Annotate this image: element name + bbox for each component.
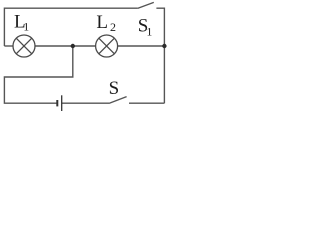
- node A junction dot: [71, 44, 75, 48]
- battery cell: short negative plate: [56, 100, 58, 106]
- node B junction dot: [162, 44, 166, 48]
- battery cell: long positive plate: [61, 95, 63, 111]
- lamp L1: [13, 35, 35, 57]
- wire top-left to S1 pivot: [4, 8, 137, 46]
- svg-text:1: 1: [146, 24, 152, 38]
- lamp L2: [96, 35, 118, 57]
- svg-text:2: 2: [110, 20, 116, 34]
- svg-text:1: 1: [23, 20, 29, 34]
- wire L1 to L2: [35, 45, 96, 47]
- svg-text:S: S: [109, 78, 120, 99]
- wire L2 to node B: [118, 45, 165, 47]
- wire battery to switch S pivot: [62, 102, 109, 104]
- wire node A down and left to battery: [4, 46, 72, 103]
- svg-text:L: L: [96, 12, 108, 33]
- switch S1 blade: [138, 2, 154, 8]
- wire S1 to top-right corner down to bottom-right corner: [156, 8, 164, 103]
- wire left edge into lamp L1: [4, 45, 13, 47]
- switch S blade: [109, 97, 127, 104]
- wire switch S to bottom-right corner: [129, 102, 164, 104]
